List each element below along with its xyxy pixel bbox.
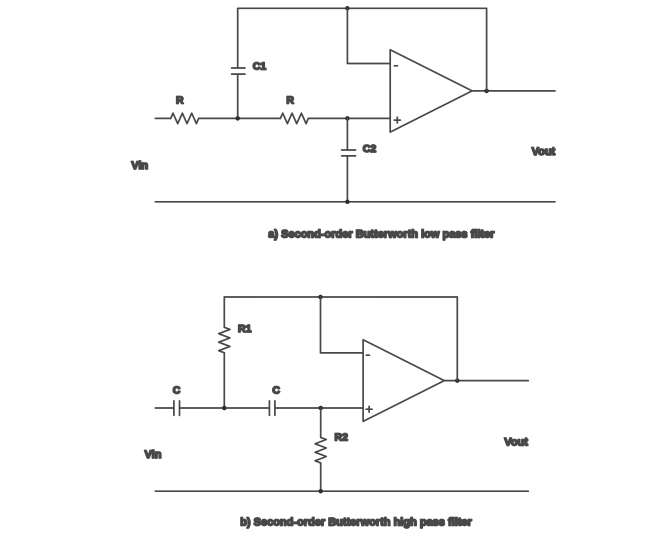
wire: output (b) [444,380,528,382]
node: C2 junction on ground rail (a) [345,200,350,205]
wire: to non-inverting input (b) [275,407,363,409]
wire: R1 bottom lead (b) [223,353,225,408]
node: C2 junction on signal line (a) [345,116,350,121]
wire: between caps (b) [180,407,270,409]
svg-text:C: C [272,384,280,396]
wire: bottom ground rail (a) [155,201,555,203]
svg-text:b) Second-order Butterworth hi: b) Second-order Butterworth high pass fi… [240,517,472,529]
wire: output (a) [472,90,555,92]
node: C1 junction on signal line (a) [235,116,240,121]
wire: between resistors (a) [199,117,281,119]
node: feedback tap junction (b) [318,295,323,300]
wire: C1 top lead (a) [237,8,239,68]
svg-text:C: C [173,384,181,396]
capacitor C2 [342,150,356,156]
node: feedback tap junction (a) [345,6,350,11]
svg-text:R2: R2 [335,432,349,444]
op-amp U2 (b) [363,340,444,422]
wire: C2 bottom lead (a) [346,156,348,202]
resistor R (first, a) [171,113,199,123]
wire: inverting input branch (b) [321,297,364,353]
node: output feedback junction (a) [484,89,489,94]
svg-text:Vin: Vin [131,160,148,172]
resistor R (second, a) [280,113,308,123]
wire: R1 top lead (b) [223,297,225,327]
capacitor C1 [232,68,245,74]
wire: bottom ground rail (b) [155,490,528,492]
node: R2 junction on ground rail (b) [318,489,323,494]
wire: R2 bottom lead (b) [320,463,322,491]
wire: input lead (b) [155,407,174,409]
svg-text:Vout: Vout [504,436,528,448]
wire: feedback vertical (b) [456,297,458,381]
wire: top feedback rail (b) [224,296,457,298]
resistor R1 [219,327,230,353]
node: R1 junction on signal line (b) [222,406,227,411]
pin: inverting (-) marker U1 [394,65,397,67]
pin: inverting (-) marker U2 [366,354,369,356]
wire: feedback vertical (a) [486,8,488,91]
svg-text:R: R [176,95,184,107]
svg-text:Vout: Vout [532,146,556,158]
wire: input lead (a) [155,117,170,119]
svg-text:C1: C1 [253,61,267,73]
svg-text:R: R [286,95,294,107]
capacitor C (second, b) [269,401,275,416]
svg-text:C2: C2 [363,143,377,155]
svg-text:Vin: Vin [145,449,162,461]
pin: non-inverting (+) marker U2 [366,406,372,412]
wire: to non-inverting input (a) [308,117,390,119]
pin: non-inverting (+) marker U1 [394,117,400,123]
svg-text:a) Second-order Butterworth lo: a) Second-order Butterworth low pass fil… [268,229,495,241]
wire: C1 bottom lead (a) [237,74,239,118]
op-amp U1 (a) [390,50,472,132]
wire: R2 top lead (b) [320,408,322,437]
wire: top feedback rail (a) [238,7,487,9]
wire: C2 top lead (a) [346,118,348,150]
node: R2 junction on signal line (b) [318,406,323,411]
svg-text:R1: R1 [238,323,252,335]
node: output feedback junction (b) [455,378,460,383]
resistor R2 [315,437,326,463]
wire: inverting input branch (a) [347,8,390,63]
capacitor C (first, b) [174,401,180,416]
